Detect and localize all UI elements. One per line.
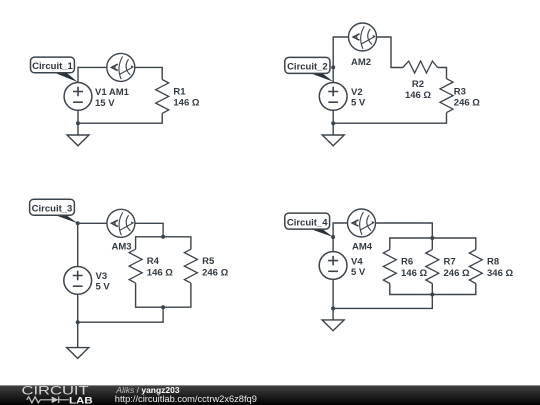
label R2 value [405,79,431,101]
svg-text:R2: R2 [412,79,424,90]
voltage source V1 [64,83,92,111]
label V3 value [96,271,111,293]
ground [67,135,89,146]
wire V3 bottom to ground [77,294,79,347]
resistor R7 [426,250,439,284]
ammeter AM3 [107,209,135,237]
node at V3 bottom rail [76,320,80,324]
resistor R2 [403,61,438,73]
wire R3 bottom to bottom rail [333,113,446,124]
top rail of parallel resistors [390,238,476,250]
label R6 value [401,257,427,279]
node flag Circuit_4 [285,213,333,237]
wire top rail to ammeter [78,222,107,224]
bottom rail of parallel resistors [390,284,476,295]
svg-text:Circuit_3: Circuit_3 [32,204,73,215]
svg-text:146 Ω: 146 Ω [173,98,199,109]
resistor R3 [440,79,453,113]
label R1 value [173,87,199,109]
ground [322,320,344,331]
top rail of parallel resistors [136,237,191,249]
wire R7 top lead [431,238,433,250]
svg-text:R6: R6 [401,257,413,268]
logo resistor-diode glyph [27,397,69,404]
node at V4 bottom rail [331,306,335,310]
svg-text:5 V: 5 V [351,98,366,109]
wire V1 top to ammeter left [78,67,107,82]
logo LAB word [69,395,93,405]
svg-text:AM2: AM2 [351,57,371,68]
svg-text:AM3: AM3 [112,241,132,252]
wire flag node to V3 top [77,223,79,266]
wire V2 top to top rail corner [333,37,348,83]
svg-text:R5: R5 [202,256,215,267]
resistor R1 [156,80,169,114]
node flag Circuit_3 [30,199,78,223]
footer author line [115,385,180,395]
label R7 value [444,257,470,279]
node bottom of parallel pair [161,305,165,309]
wire R1 bottom to bottom rail [78,113,162,123]
ammeter AM4 [348,209,376,237]
ammeter AM2 [349,23,377,51]
wire R2 right to R3 top [438,68,447,79]
ground [67,348,89,359]
node bottom of parallel bank [430,293,434,297]
wire parallel bottom to bottom rail [333,295,432,309]
footer url line [115,394,257,404]
label R8 value [487,257,513,279]
resistor R8 [469,250,482,284]
svg-text:15 V: 15 V [95,98,115,109]
label R4 value [147,256,173,278]
wire V2 bottom to ground [332,110,334,135]
label V2 value [351,87,366,109]
wire ammeter right to R1 top [135,67,162,79]
svg-text:346 Ω: 346 Ω [487,268,513,279]
node at flag attach point [331,65,335,69]
label AM3 [112,241,132,252]
wire ammeter right to parallel top [376,223,433,238]
wire parallel bottom to bottom rail [78,307,163,322]
node flag Circuit_2 [285,57,334,81]
node top of parallel bank [430,236,434,240]
svg-text:5 V: 5 V [351,267,366,278]
wire R7 bottom lead [431,284,433,295]
ammeter AM1 [107,53,135,81]
ground [322,135,344,146]
svg-text:R1: R1 [173,87,186,98]
label V1 AM1 value [95,87,130,109]
svg-text:246 Ω: 246 Ω [454,98,480,109]
svg-text:146 Ω: 146 Ω [405,90,431,101]
node flag Circuit_1 [31,57,79,82]
wire V1 bottom to ground [77,110,79,135]
svg-text:Circuit_1: Circuit_1 [32,61,73,72]
node at flag attach [331,235,335,239]
svg-text:Circuit_4: Circuit_4 [287,217,328,228]
voltage source V2 [319,83,347,111]
svg-text:R7: R7 [444,257,456,268]
svg-text:Circuit_2: Circuit_2 [287,62,328,73]
node at flag attach [76,221,80,225]
wire V4 top to top rail [333,223,347,252]
label R3 value [454,87,480,109]
resistor R4 [129,249,142,283]
svg-text:246 Ω: 246 Ω [444,268,470,279]
svg-text:5 V: 5 V [96,282,111,293]
wire ammeter right to parallel top rail [135,223,163,237]
svg-text:V2: V2 [351,87,363,98]
svg-text:V4: V4 [351,256,363,267]
wire ammeter right to R2 left [377,37,403,68]
node junction at V2 bottom [331,121,335,125]
svg-text:146 Ω: 146 Ω [401,268,427,279]
voltage source V4 [319,252,347,280]
bottom rail of parallel resistors [136,283,191,307]
svg-text:V3: V3 [96,271,108,282]
resistor R6 [383,250,396,284]
svg-text:LAB: LAB [69,395,93,405]
label AM2 [351,57,371,68]
svg-text:146 Ω: 146 Ω [147,267,173,278]
svg-text:V1 AM1: V1 AM1 [95,87,130,98]
resistor R5 [184,249,197,283]
node junction at V1 bottom [76,121,80,125]
svg-text:R8: R8 [487,257,499,268]
voltage source V3 [64,267,92,295]
label AM4 [352,241,373,252]
label V4 value [351,256,366,278]
svg-text:AM4: AM4 [352,241,373,252]
svg-text:R3: R3 [454,87,466,98]
svg-text:http://circuitlab.com/cctrw2x6: http://circuitlab.com/cctrw2x6z8fq9 [115,394,257,404]
wire V4 bottom to ground [332,279,334,320]
logo CIRCUIT word [22,384,89,397]
svg-text:246 Ω: 246 Ω [202,267,228,278]
svg-text:R4: R4 [147,256,160,267]
label R5 value [202,256,228,278]
node top of parallel pair [161,235,165,239]
